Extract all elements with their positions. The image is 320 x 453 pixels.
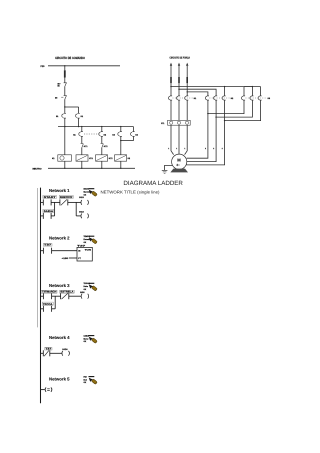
wire: K3 pole3 tie <box>225 100 261 121</box>
svg-text:TON: TON <box>85 249 92 252</box>
contact FT1 95-96 (NC thermal) <box>58 82 67 88</box>
label box: TROCA <box>42 302 53 306</box>
pushbutton S1 (NO start) <box>56 113 66 118</box>
svg-text:KT1: KT1 <box>89 157 93 160</box>
svg-text:SAIDA: SAIDA <box>79 210 84 213</box>
svg-text:Network 4: Network 4 <box>49 335 70 340</box>
svg-text:CIRCUITO DE FORÇA: CIRCUITO DE FORÇA <box>170 57 191 60</box>
wire: K2 pole3 drop <box>224 87 226 96</box>
icon: network comment marker 4 <box>84 334 98 343</box>
fuse F2 <box>178 77 180 83</box>
contact RESET/STOP (NC) <box>60 199 68 205</box>
node: junction on L1 feeder for K2 pole 3 <box>224 86 225 87</box>
wire: L1 to overload <box>170 100 172 120</box>
svg-text:K2: K2 <box>128 157 130 160</box>
contact T37 (NC) <box>43 350 50 356</box>
wire: coil stubs to bottom bus <box>64 161 66 168</box>
wire: phase L1 upper <box>170 66 172 77</box>
contactor K2 poles (3x) <box>205 96 225 100</box>
wire: N3 parallel rejoin <box>52 308 56 310</box>
wire: L2 feeder <box>179 89 216 96</box>
wire: middle distribution bus <box>58 126 134 128</box>
wire: branch top horizontal <box>65 106 79 108</box>
wire: L3 to overload <box>186 100 188 120</box>
svg-text:CIRCUITO DE COMANDO: CIRCUITO DE COMANDO <box>55 56 85 60</box>
coil END (N5) <box>45 387 52 391</box>
svg-text:K2: K2 <box>231 97 233 100</box>
node L2 arrow <box>178 63 180 66</box>
wire: N3 between contacts <box>52 295 61 297</box>
coil Q0.2 (delta) <box>81 294 88 299</box>
contact KT2 (timer) in branch 3 <box>101 143 108 147</box>
node L3 arrow <box>186 63 188 66</box>
svg-text:K2: K2 <box>104 133 106 136</box>
svg-text:T37: T37 <box>44 244 52 247</box>
overload relay FT1 <box>161 120 190 125</box>
wire: L1 below fuse <box>170 83 172 96</box>
wire: K2 mechanical link dashes <box>209 97 230 99</box>
wire: N4 to coil <box>50 352 62 354</box>
wire: overload to motor V1 <box>178 125 180 154</box>
svg-text:3~: 3~ <box>176 163 180 167</box>
wire: L3 feeder <box>187 92 208 96</box>
wire: column 3 middle <box>101 136 103 143</box>
svg-text:Network 3: Network 3 <box>49 283 70 288</box>
fuse F1 <box>170 77 172 83</box>
contact K1 aux (NO seal-in) <box>76 113 83 118</box>
wire: N4 rung from rail <box>40 352 43 354</box>
coil Q0.0 (K1) <box>81 200 88 205</box>
wire: L1 feeder to star bracket <box>171 86 252 88</box>
node: L3 tap <box>187 91 188 92</box>
wire: overload to motor W1 <box>185 125 188 154</box>
wire: left power rail (shadow line) <box>37 188 39 327</box>
contactor K1 poles (3x) <box>169 96 189 100</box>
wire: left branch down to S1 <box>64 107 66 113</box>
node: bus junctions <box>64 126 65 127</box>
coil K1 (contactor, box with circle) <box>52 155 71 161</box>
label box: RESET/STOP <box>59 195 73 198</box>
wire: overload to motor U1 <box>171 125 174 154</box>
wire: K3 pole2 tie <box>216 100 252 117</box>
svg-text:M: M <box>177 157 181 162</box>
contact K4 aux (NO) parallel <box>131 132 139 137</box>
node: split for seal-in branch <box>64 106 65 107</box>
svg-text:NEUTRO: NEUTRO <box>33 168 42 171</box>
contact K2 (NO) in branch 3 <box>99 132 106 137</box>
label box: T37 <box>45 347 53 350</box>
icon: network comment marker 5 <box>84 375 98 384</box>
svg-text:96: 96 <box>58 85 60 88</box>
wire: N2 PT input <box>69 257 77 259</box>
wire: N3 rung from rail <box>40 295 43 297</box>
svg-text:Network 5: Network 5 <box>49 376 70 381</box>
svg-text:KT2: KT2 <box>104 145 108 148</box>
node: L1 tap <box>170 86 171 87</box>
wire: K2 pole3 to motor terminal V2 <box>186 100 224 165</box>
svg-text:RESET/STOP: RESET/STOP <box>60 196 73 199</box>
label box: T37 <box>43 244 52 247</box>
wire: N1 rung from rail <box>40 201 43 203</box>
coil KT2 (timer, box with diagonal) <box>96 155 113 161</box>
contact ESTRELA (NC) <box>61 293 69 299</box>
contact T37 (NO) <box>43 293 51 299</box>
svg-text:K1: K1 <box>52 157 54 160</box>
contact KT1 (timer) in branch 2 <box>81 143 88 147</box>
svg-text:T37/MARCH: T37/MARCH <box>42 291 56 294</box>
fuse F3 <box>186 77 188 83</box>
wire: column 2 middle <box>81 136 83 143</box>
node: tap of main column on top bus <box>64 65 65 66</box>
svg-text:SAIDA: SAIDA <box>80 291 85 294</box>
coil K2 (box with diagonal) <box>115 155 130 161</box>
node L1 arrow <box>170 63 172 66</box>
wire: below S1 <box>64 118 66 127</box>
svg-text:S0: S0 <box>55 96 57 99</box>
wire: K1 mechanical link dashes <box>173 97 194 99</box>
motor M1 (circle) <box>172 154 187 169</box>
ground (motor earth) <box>162 165 173 173</box>
wire: N1 seal-in rejoin <box>51 215 55 217</box>
wire: N2 rung from rail <box>40 250 43 252</box>
wire: column 3 lower <box>101 148 103 155</box>
wire: N1 branch vertical <box>75 202 77 216</box>
wire: star bracket horizontal <box>244 86 261 88</box>
wire: L3 below fuse <box>186 83 188 96</box>
wire: K3 mechanical link dashes <box>246 97 267 99</box>
wire: branch 4 parallel right leg down <box>133 127 135 132</box>
wire: phase L2 upper <box>178 66 180 77</box>
svg-text:Network 2: Network 2 <box>49 236 70 241</box>
node: L2 tap <box>178 89 179 90</box>
svg-text:K1: K1 <box>81 115 83 118</box>
svg-text:SAIDA: SAIDA <box>79 196 84 199</box>
timer T37 (TON box) <box>77 244 92 261</box>
wire: N3 to coil <box>69 295 82 297</box>
contact Q0.0 (N2 input) <box>43 248 51 254</box>
wire: K3 pole1 tie <box>208 100 244 114</box>
wire: column 1 down to coil K1 <box>64 127 66 155</box>
coil Q0.1 (K3) <box>81 214 88 219</box>
contact Q0.0 seal-in <box>43 213 51 219</box>
node: bracket junction <box>252 86 253 87</box>
svg-text:Network 1: Network 1 <box>49 188 70 193</box>
wire: column below fuse <box>64 78 66 83</box>
wire: N3 parallel branch from rail <box>40 308 43 310</box>
icon: network comment marker 1 <box>84 188 98 197</box>
node: bottom bus junctions <box>64 168 65 169</box>
svg-text:ESTRELA: ESTRELA <box>60 291 73 294</box>
svg-text:SAIDA: SAIDA <box>62 348 68 351</box>
coil KT1 (timer, box with diagonal) <box>76 155 93 161</box>
wire: below K1 aux rejoin <box>78 118 80 127</box>
wire: K2 pole2 to motor terminal U2 <box>187 100 216 162</box>
svg-text:TROCA: TROCA <box>43 303 53 306</box>
wire: N1 seal-in branch from rail <box>40 215 43 217</box>
wire: column 2 upper <box>81 127 83 132</box>
svg-text:K3: K3 <box>112 133 114 136</box>
wire: parallel rejoin horizontal <box>121 140 134 142</box>
node: rejoin <box>120 140 121 141</box>
icon: network comment marker 3 <box>84 282 98 291</box>
svg-text:S1: S1 <box>56 115 58 118</box>
contact K1 (NO) in branch 2 <box>73 132 83 137</box>
wire: N1 second row <box>76 215 81 217</box>
wire: left power rail (main) <box>40 188 42 404</box>
wire: column 4 lower <box>120 141 122 155</box>
node: tie junction 1 <box>207 113 208 114</box>
svg-text:SAIDA: SAIDA <box>44 210 54 213</box>
svg-text:FT1: FT1 <box>161 122 164 125</box>
wire: main column upper segment <box>64 66 66 71</box>
wire: S0 down to parallel split node <box>64 99 66 107</box>
wire: right branch down to K1 aux <box>78 107 80 113</box>
wire: column FT1 to S0 <box>64 86 66 95</box>
svg-text:KT1: KT1 <box>84 145 88 148</box>
label box: T37/MARCH <box>41 290 57 293</box>
svg-text:KT2: KT2 <box>109 157 113 160</box>
wire: column 4 upper <box>120 127 122 132</box>
svg-text:FIM: FIM <box>84 375 88 378</box>
node: tie junction 2 <box>215 116 216 117</box>
pushbutton S0 (NC) <box>55 95 67 99</box>
svg-text:K3: K3 <box>268 97 270 100</box>
node: tie junction 3 <box>224 120 225 121</box>
wire: phase L3 upper <box>186 66 188 77</box>
wire: column 2 lower <box>81 148 83 155</box>
contact K3 (NO) in branch 4 <box>112 132 122 137</box>
wire: N1 to coil branch <box>68 201 81 203</box>
contactor K3 poles (3x, star) <box>242 96 262 100</box>
svg-text:START: START <box>44 196 57 199</box>
wire: N5 rung from rail <box>40 389 45 391</box>
svg-text:End: End <box>84 378 87 381</box>
label box: SAIDA <box>43 209 54 212</box>
svg-text:T37: T37 <box>45 347 52 350</box>
wire: K2 pole1 to motor terminal W2 <box>187 100 208 158</box>
wire: column 3 upper <box>101 127 103 132</box>
wire: bracket legs <box>243 87 245 96</box>
contact Q0.2 seal <box>43 306 51 312</box>
label box: START <box>43 195 57 198</box>
wire: L2 to overload <box>178 100 180 120</box>
svg-text:Motor: Motor <box>84 337 89 340</box>
wire: bottom return bus <box>48 167 135 169</box>
wire: N1 between contacts <box>51 201 60 203</box>
svg-text:K1: K1 <box>194 97 196 100</box>
wire: N2 to timer box <box>52 250 77 252</box>
contact START (NO) <box>43 199 51 205</box>
motor base (pedestal) <box>170 169 188 173</box>
icon: network comment marker 2 <box>84 235 98 244</box>
wire: L2 below fuse <box>178 83 180 96</box>
wire: top supply bus <box>48 65 120 67</box>
svg-text:DIAGRAMA LADDER: DIAGRAMA LADDER <box>123 180 183 187</box>
fuse F21 (thick bar) <box>64 70 66 77</box>
svg-text:K1: K1 <box>73 133 75 136</box>
label box: ESTRELA <box>60 290 74 293</box>
coil Q0.3 <box>62 351 69 356</box>
wire: dashed mechanical link branch2-branch3 <box>84 133 100 135</box>
svg-text:NETWORK TITLE (single line): NETWORK TITLE (single line) <box>101 190 161 195</box>
